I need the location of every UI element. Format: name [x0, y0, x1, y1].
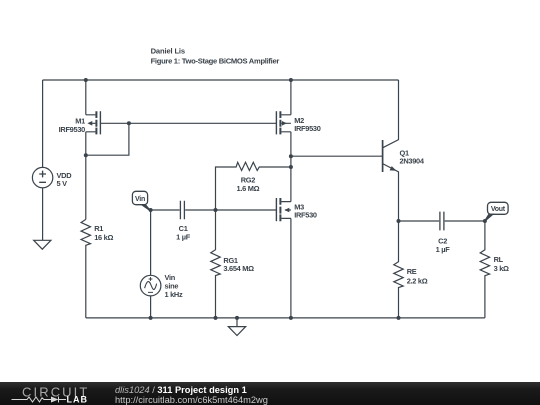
- svg-text:2N3904: 2N3904: [400, 157, 425, 166]
- svg-text:16 kΩ: 16 kΩ: [94, 233, 113, 242]
- svg-text:LAB: LAB: [67, 395, 89, 405]
- svg-text:1 µF: 1 µF: [176, 232, 191, 241]
- svg-text:5 V: 5 V: [57, 179, 68, 188]
- svg-text:3 kΩ: 3 kΩ: [494, 264, 509, 273]
- svg-text:3.654 MΩ: 3.654 MΩ: [223, 264, 254, 273]
- svg-text:IRF530: IRF530: [294, 211, 317, 220]
- svg-text:IRF9530: IRF9530: [59, 125, 86, 134]
- svg-text:1 µF: 1 µF: [436, 245, 451, 254]
- svg-text:IRF9530: IRF9530: [294, 124, 321, 133]
- svg-text:Daniel Lis: Daniel Lis: [151, 47, 185, 56]
- svg-text:RL: RL: [494, 255, 504, 264]
- svg-text:RE: RE: [407, 267, 417, 276]
- svg-text:2.2 kΩ: 2.2 kΩ: [407, 276, 428, 285]
- svg-text:Vin: Vin: [135, 196, 145, 203]
- svg-text:1.6 MΩ: 1.6 MΩ: [237, 184, 260, 193]
- svg-text:1 kHz: 1 kHz: [165, 290, 183, 299]
- svg-text:Vout: Vout: [491, 206, 506, 213]
- svg-text:Figure 1: Two-Stage BiCMOS Amp: Figure 1: Two-Stage BiCMOS Amplifier: [151, 57, 280, 66]
- svg-text:R1: R1: [94, 224, 103, 233]
